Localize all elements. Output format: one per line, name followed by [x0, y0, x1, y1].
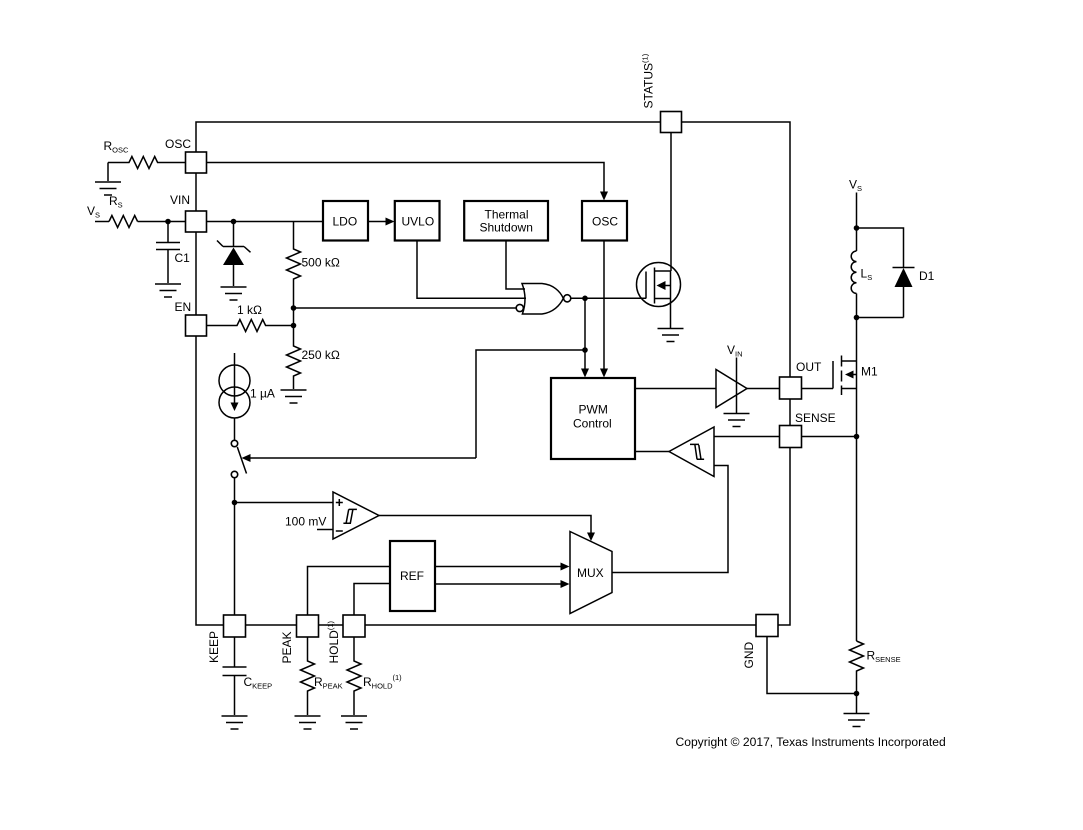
resistor RHOLD — [347, 637, 361, 715]
switch — [231, 440, 246, 477]
label RHOLD — [363, 673, 402, 691]
ground RPEAK — [295, 716, 321, 729]
svg-text:SENSE: SENSE — [795, 411, 836, 425]
transistor M1 — [802, 356, 857, 396]
node C1 junction — [165, 219, 171, 225]
svg-text:OSC: OSC — [592, 215, 618, 229]
label pin HOLD rotated — [326, 620, 341, 663]
wire to NOR lower input — [294, 307, 517, 309]
label pin OSC — [165, 137, 191, 151]
wire REF to MUX upper — [435, 563, 570, 571]
pin KEEP — [224, 615, 246, 637]
copyright — [676, 735, 946, 749]
pin OUT — [780, 377, 802, 399]
svg-text:PWM: PWM — [579, 403, 608, 417]
svg-text:Thermal: Thermal — [485, 208, 529, 222]
node LS bottom junction — [854, 315, 860, 321]
label RPEAK — [314, 675, 343, 691]
wire 100mV minus stub — [317, 529, 333, 531]
pin SENSE — [780, 426, 802, 448]
label pin PEAK rotated — [280, 631, 294, 663]
label C1 — [175, 251, 191, 265]
svg-text:OSC: OSC — [165, 137, 191, 151]
svg-text:REF: REF — [400, 569, 424, 583]
node 500k-250k junction — [291, 305, 297, 311]
label 1k — [237, 303, 262, 317]
transistor Q internal MOSFET — [637, 263, 681, 329]
svg-text:250 kΩ: 250 kΩ — [302, 348, 340, 362]
label CKEEP — [244, 675, 273, 691]
block UVLO — [395, 201, 440, 241]
label VS right — [849, 178, 862, 194]
pin PEAK — [297, 615, 319, 637]
wire OSC block to PWM — [600, 241, 608, 378]
label 250k — [302, 348, 340, 362]
wire REF to MUX lower — [435, 580, 570, 588]
svg-text:1 kΩ: 1 kΩ — [237, 303, 262, 317]
resistor ROSC — [108, 157, 186, 169]
node LS top junction — [854, 225, 860, 231]
wire PEAK to REF line — [308, 567, 391, 616]
current source 1uA — [219, 353, 250, 440]
svg-text:VIN: VIN — [170, 193, 190, 207]
svg-text:500 kΩ: 500 kΩ — [302, 256, 340, 270]
ground Q source — [658, 329, 684, 342]
node feedback junction — [582, 347, 588, 353]
wire buffer to OUT — [747, 388, 780, 390]
zener diode — [217, 222, 251, 287]
block Thermal Shutdown — [464, 201, 548, 241]
ground CKEEP — [222, 716, 248, 729]
svg-text:EN: EN — [175, 300, 192, 314]
svg-text:UVLO: UVLO — [402, 215, 435, 229]
capacitor C1 — [156, 222, 180, 284]
node EN junction — [291, 308, 297, 328]
wire UVLO to NOR — [417, 240, 526, 298]
label pin STATUS rotated — [641, 53, 656, 108]
svg-text:Copyright © 2017, Texas Instru: Copyright © 2017, Texas Instruments Inco… — [676, 735, 946, 749]
ground RSENSE — [844, 714, 870, 727]
NOR gate U1 — [516, 284, 571, 315]
node SENSE junction — [854, 434, 860, 440]
resistor 500k — [287, 222, 301, 309]
label pin KEEP rotated — [207, 631, 221, 663]
inductor LS — [851, 251, 856, 293]
pin VIN — [186, 211, 207, 232]
label D1 — [919, 269, 935, 283]
IC boundary — [196, 122, 790, 625]
diode D1 — [857, 228, 915, 318]
wire PWM to buffer — [635, 388, 716, 390]
resistor RPEAK — [301, 637, 315, 715]
node RSENSE bottom junction — [854, 691, 860, 697]
svg-text:1 µA: 1 µA — [250, 387, 275, 401]
comparator current sense — [669, 427, 714, 477]
label M1 — [861, 365, 878, 379]
resistor RS — [109, 216, 138, 228]
svg-text:GND: GND — [742, 642, 756, 669]
wire NOR junction to PWM — [581, 298, 589, 377]
svg-text:M1: M1 — [861, 365, 878, 379]
wire NOR output to Q gate — [571, 297, 646, 299]
wire MUX to comparator — [613, 466, 729, 573]
label ROSC — [104, 139, 130, 155]
label 500k — [302, 256, 340, 270]
pin EN — [186, 315, 207, 336]
pin GND — [756, 615, 778, 637]
wire STATUS to Q drain — [670, 133, 672, 272]
block PWM Control — [551, 378, 635, 459]
label pin GND rotated — [742, 642, 756, 669]
node NOR output junction — [582, 296, 588, 302]
block OSC — [582, 201, 627, 241]
label VS left — [87, 204, 100, 220]
resistor 1k — [207, 320, 294, 332]
capacitor CKEEP — [223, 637, 247, 715]
node zener junction — [231, 219, 237, 225]
svg-text:MUX: MUX — [577, 566, 604, 580]
MUX block — [570, 532, 612, 614]
label 100mV — [285, 515, 326, 529]
ground 250k — [281, 390, 307, 403]
label pin EN — [175, 300, 192, 314]
wire SENSE pin to node — [802, 436, 857, 438]
svg-text:PEAK: PEAK — [280, 631, 294, 663]
wire VIN to LDO — [207, 221, 324, 223]
svg-text:KEEP: KEEP — [207, 631, 221, 663]
wire RS to VIN pin — [138, 221, 186, 223]
resistor RSENSE — [850, 641, 864, 713]
wire OSC pin to OSC block — [207, 163, 609, 201]
op-amp buffer driver — [716, 358, 747, 414]
wire comparator out to PWM — [635, 451, 669, 453]
wire comparator to MUX — [379, 516, 595, 542]
pin STATUS — [661, 112, 682, 133]
wire Thermal Shutdown to NOR — [506, 240, 525, 289]
svg-text:D1: D1 — [919, 269, 935, 283]
svg-text:100 mV: 100 mV — [285, 515, 326, 529]
svg-text:Shutdown: Shutdown — [480, 221, 533, 235]
wire switch control arrow — [242, 454, 477, 462]
svg-text:LDO: LDO — [333, 215, 358, 229]
wire feedback to switch — [476, 350, 585, 458]
pin HOLD — [343, 615, 365, 637]
ground zener — [221, 287, 247, 300]
wire LS to M1 drain — [856, 294, 858, 362]
label 1uA — [250, 387, 275, 401]
wire switch to KEEP — [234, 478, 236, 615]
ground RHOLD — [341, 716, 367, 729]
wire HOLD to REF line — [354, 584, 390, 616]
label pin OUT — [796, 360, 822, 374]
label pin VIN — [170, 193, 190, 207]
label RS — [109, 194, 123, 210]
pin OSC — [186, 152, 207, 173]
wire M1 source to RSENSE — [856, 361, 858, 641]
wire GND pin to RSENSE — [767, 637, 857, 694]
label LS — [861, 267, 873, 283]
ground C1 — [155, 284, 181, 297]
wire VS to RS — [95, 221, 109, 223]
label RSENSE — [867, 649, 901, 665]
block REF — [390, 541, 435, 611]
svg-text:C1: C1 — [175, 251, 191, 265]
wire SENSE to comparator — [714, 436, 780, 438]
label pin SENSE — [795, 411, 836, 425]
comparator 100mV — [333, 492, 379, 539]
block LDO — [323, 201, 368, 241]
wire VS right rail — [856, 193, 858, 252]
label VIN buffer — [727, 343, 743, 359]
svg-text:Control: Control — [573, 417, 612, 431]
svg-text:OUT: OUT — [796, 360, 822, 374]
ground buffer — [724, 414, 750, 427]
wire KEEP pin stub — [234, 615, 236, 637]
node KEEP comparator junction — [232, 500, 238, 506]
wire KEEP node to comparator plus — [235, 502, 334, 504]
ground ROSC — [95, 163, 121, 196]
wire LDO to UVLO — [368, 218, 395, 226]
resistor 250k — [287, 326, 301, 390]
